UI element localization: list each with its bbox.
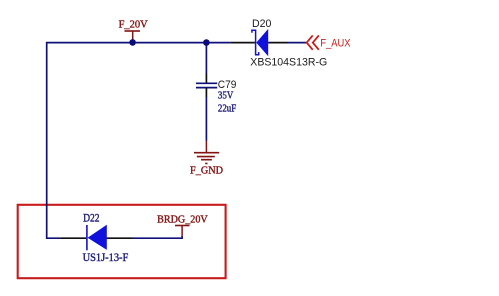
wire box right segment (navy) [133, 236, 183, 239]
svg-text:XBS104S13R-G: XBS104S13R-G [250, 57, 327, 69]
power symbol BRDG_20V stem [181, 226, 183, 237]
node junction dot under F_20V [129, 39, 136, 46]
wire to F_AUX (navy) [288, 42, 307, 44]
svg-text:35V: 35V [218, 90, 234, 102]
diode D22 triangle [88, 225, 107, 250]
svg-text:F_GND: F_GND [190, 165, 223, 177]
svg-text:D20: D20 [252, 18, 271, 30]
wire D22 left pin (black) [60, 237, 86, 239]
svg-text:BRDG_20V: BRDG_20V [157, 213, 208, 225]
node junction dot at C79 branch [203, 39, 210, 46]
svg-text:US1J-13-F: US1J-13-F [83, 252, 129, 264]
off-page connector chevrons F_AUX [307, 35, 319, 49]
svg-text:D22: D22 [83, 213, 100, 225]
wire D20 left pin (black) [231, 42, 255, 44]
power symbol F_20V stem [132, 31, 134, 42]
red highlight box [18, 205, 226, 278]
svg-text:F_AUX: F_AUX [320, 38, 351, 50]
svg-text:F_20V: F_20V [119, 18, 148, 30]
svg-text:22uF: 22uF [218, 103, 236, 115]
ground symbol F_GND bars [194, 153, 219, 164]
capacitor C79 bottom plate [196, 87, 217, 89]
diode D22 cathode bar [86, 225, 88, 250]
power symbol F_20V bar [125, 30, 141, 32]
wire C79 to ground (navy) [205, 97, 207, 141]
wire C79 top pin (black) [205, 74, 207, 83]
wire D22 right pin (black) [107, 237, 133, 239]
capacitor C79 top plate [196, 82, 217, 84]
wire D20 right pin (black) [268, 42, 287, 44]
wire C79 bottom pin (black) [205, 88, 207, 97]
wire C79 branch upper (navy) [205, 42, 207, 74]
diode D20 schottky cathode bar with hooks [252, 30, 259, 54]
power symbol BRDG_20V bar [175, 225, 190, 227]
wire main L: top rail, left vertical, into box [47, 43, 231, 239]
diode D20 triangle [256, 29, 268, 56]
ground pin (dark red) [205, 141, 207, 153]
